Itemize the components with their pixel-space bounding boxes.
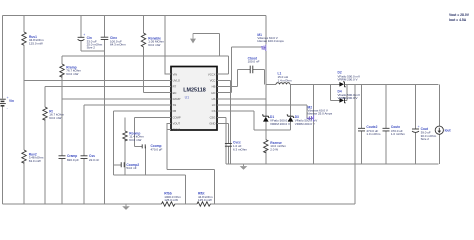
svg-text:63.0 mW: 63.0 mW <box>129 138 141 142</box>
current source Iout <box>435 84 451 163</box>
svg-text:Size 2: Size 2 <box>87 45 96 49</box>
capacitor Cinx <box>101 16 126 205</box>
resistor Ruv2 <box>22 150 44 163</box>
svg-text:UVLO: UVLO <box>173 79 180 83</box>
transistor M1 <box>257 16 284 52</box>
capacitor Cin <box>78 16 103 52</box>
ground right <box>240 164 248 170</box>
svg-text:22.0 nF: 22.0 nF <box>89 158 99 162</box>
wire CSG row <box>222 117 226 164</box>
svg-text:6.3 mOhm: 6.3 mOhm <box>233 147 248 151</box>
svg-text:+: + <box>418 125 420 129</box>
svg-text:2.0 W: 2.0 W <box>270 147 278 151</box>
svg-text:VRRM 200.0 V: VRRM 200.0 V <box>295 122 315 126</box>
svg-text:Idsmax 100.0 Amps: Idsmax 100.0 Amps <box>257 39 284 43</box>
wire SW1 column <box>265 51 267 116</box>
wire SS pin row <box>84 104 167 106</box>
wire output return rail <box>226 163 439 165</box>
wire COMP row <box>135 116 167 118</box>
transistor M2 <box>307 84 333 163</box>
resistor Ruv1 <box>22 32 44 45</box>
wire output sense riser <box>354 84 356 204</box>
wire HS row <box>222 98 266 100</box>
diode D3 <box>287 84 318 130</box>
resistor Rramp <box>60 56 82 99</box>
svg-text:VRRM 200.0 V: VRRM 200.0 V <box>338 96 358 100</box>
diode D4 <box>330 84 360 103</box>
capacitor Ccomp <box>135 144 163 175</box>
IC U1 LM25118 <box>171 67 217 132</box>
wire VOUT pin routing <box>167 123 215 204</box>
svg-text:820.0 pF: 820.0 pF <box>67 158 79 162</box>
svg-text:VIN: VIN <box>173 72 178 76</box>
svg-text:VOUT: VOUT <box>173 122 181 126</box>
svg-text:125.0 mW: 125.0 mW <box>29 41 43 45</box>
ground left <box>122 204 130 210</box>
svg-text:HB: HB <box>212 85 216 89</box>
wire left pin stubs <box>167 74 172 129</box>
svg-text:VRRM 200.0 V: VRRM 200.0 V <box>270 122 290 126</box>
svg-text:SS: SS <box>173 103 177 107</box>
diode D2 <box>338 71 361 87</box>
wire CS sense line <box>254 129 291 131</box>
svg-text:GND: GND <box>209 122 215 126</box>
wire RAMP pin row <box>62 98 167 100</box>
svg-text:COMP: COMP <box>173 115 181 119</box>
wire Rramp-VCCX line <box>62 56 229 74</box>
capacitor Cramp <box>59 99 80 204</box>
wire UVLO tap <box>24 79 167 81</box>
svg-text:Iout: Iout <box>445 129 452 133</box>
svg-text:CS: CS <box>212 109 216 113</box>
resistor Rsense <box>264 130 287 164</box>
svg-text:470.0 pF: 470.0 pF <box>151 148 163 152</box>
capacitor Cvcc <box>222 123 248 163</box>
svg-text:63.0 mW: 63.0 mW <box>29 159 41 163</box>
svg-text:VRRM 200.0 V: VRRM 200.0 V <box>338 78 358 82</box>
svg-text:100.0 nF: 100.0 nF <box>248 60 260 64</box>
wire top rail Vin <box>3 15 266 17</box>
svg-text:+: + <box>83 33 85 37</box>
svg-text:54.0 nF: 54.0 nF <box>126 166 136 170</box>
svg-text:LO: LO <box>212 103 216 107</box>
resistor Rcomp <box>123 117 144 175</box>
capacitor Cout <box>412 84 437 163</box>
node output spec text <box>449 13 470 22</box>
resistor Rt <box>43 87 167 205</box>
wire VCC ladder <box>222 80 231 163</box>
wire VIN pin feed <box>165 16 167 75</box>
svg-text:Idsmax 25.0 Amps: Idsmax 25.0 Amps <box>308 112 333 116</box>
svg-text:Size 2: Size 2 <box>421 137 430 141</box>
inductor L1 <box>266 71 340 84</box>
svg-text:FB: FB <box>173 109 177 113</box>
svg-text:VCC: VCC <box>210 79 216 83</box>
svg-text:VCCX: VCCX <box>208 72 216 76</box>
svg-text:Vin: Vin <box>9 99 14 103</box>
svg-text:SYNC: SYNC <box>173 127 181 131</box>
capacitor Cboot <box>222 57 265 87</box>
node arrow connector <box>190 33 219 55</box>
svg-text:1.0 mOhm: 1.0 mOhm <box>391 132 406 136</box>
svg-text:EN: EN <box>173 91 177 95</box>
svg-text:1.0 mOhm: 1.0 mOhm <box>366 132 381 136</box>
svg-text:Iout = 4.5A: Iout = 4.5A <box>449 18 467 22</box>
svg-text:1.4 mOhm: 1.4 mOhm <box>278 78 293 82</box>
wire COMP riser <box>134 117 136 146</box>
svg-text:RAMP: RAMP <box>173 97 181 101</box>
wire CS row <box>222 111 254 130</box>
wire input cap bottoms <box>81 50 105 52</box>
wire HO row to M1 gate <box>222 47 261 93</box>
svg-text:Vout = 28.0V: Vout = 28.0V <box>449 13 470 17</box>
svg-text:63.0 mW: 63.0 mW <box>49 116 61 120</box>
svg-text:125.0 mW: 125.0 mW <box>164 198 178 202</box>
diode D1 <box>262 115 293 130</box>
capacitor Coutx <box>383 84 406 163</box>
node Ruv divider column <box>23 16 25 205</box>
wire bottom ground rail <box>3 203 356 205</box>
svg-text:LM25118: LM25118 <box>183 87 205 93</box>
svg-text:HS: HS <box>212 97 216 101</box>
svg-text:U1: U1 <box>185 96 190 100</box>
capacitor Css <box>81 105 100 204</box>
capacitor Ccomp2 <box>114 162 140 170</box>
svg-text:125.0 mW: 125.0 mW <box>198 198 212 202</box>
svg-text:63.0 mW: 63.0 mW <box>66 72 78 76</box>
wire Vin source column <box>2 16 4 205</box>
wire FB routing <box>114 111 186 204</box>
svg-text:63.0 mW: 63.0 mW <box>148 43 160 47</box>
wire right pin stubs <box>217 74 222 123</box>
voltage source Vin <box>0 96 14 110</box>
resistor Renable <box>141 16 166 93</box>
resistor Rfbt <box>197 191 213 206</box>
resistor Rfbb <box>162 191 182 206</box>
svg-text:HO: HO <box>211 91 215 95</box>
svg-text:64.3 mOhm: 64.3 mOhm <box>110 42 126 46</box>
wire Vout rail <box>344 83 438 85</box>
svg-text:-: - <box>7 107 8 111</box>
svg-text:CSG: CSG <box>210 115 216 119</box>
capacitor Coutx2 <box>358 84 381 163</box>
wire LO row to M2 gate <box>222 105 312 118</box>
svg-text:RT: RT <box>173 85 177 89</box>
